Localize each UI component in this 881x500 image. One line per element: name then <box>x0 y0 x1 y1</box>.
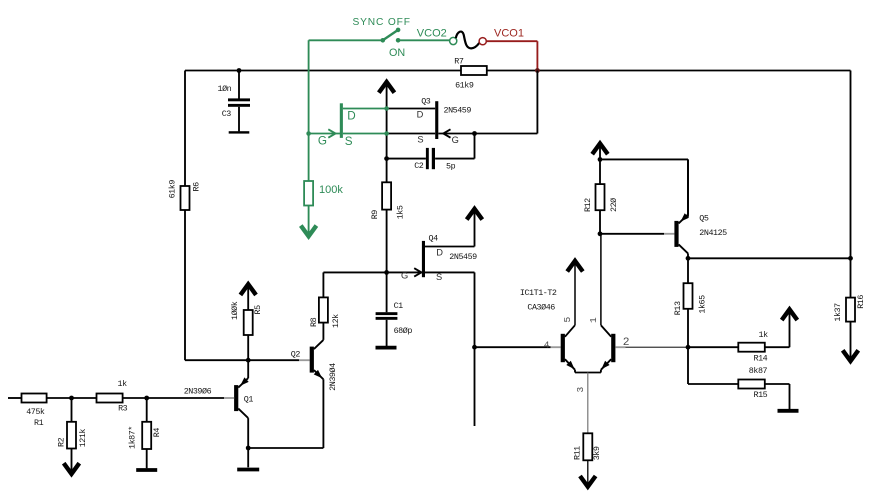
jumper wire <box>456 32 480 49</box>
wire <box>247 335 249 360</box>
svg-text:C1: C1 <box>394 301 404 311</box>
svg-text:VCO1: VCO1 <box>494 28 524 40</box>
wire <box>185 70 461 72</box>
transistor T2 CA3046 <box>601 325 616 372</box>
wire <box>536 71 538 134</box>
capacitor C3 <box>228 98 250 106</box>
junction <box>384 270 389 275</box>
svg-text:S: S <box>417 135 423 145</box>
transistor Q5 2N4125 <box>674 159 689 258</box>
svg-text:2N39Ø6: 2N39Ø6 <box>184 387 212 397</box>
wire <box>184 71 186 187</box>
svg-text:G: G <box>452 135 459 145</box>
wire <box>765 383 790 385</box>
svg-text:R16: R16 <box>856 295 866 309</box>
resistor 100k sync <box>304 134 313 237</box>
wire <box>850 71 852 259</box>
svg-text:5: 5 <box>562 317 573 323</box>
wire <box>398 39 449 41</box>
svg-text:ON: ON <box>389 47 405 59</box>
junction <box>237 68 242 73</box>
transistor Q3 source wire <box>387 133 436 135</box>
resistor R15 <box>738 380 765 389</box>
supply +V pin5 <box>567 261 583 272</box>
junction <box>598 231 603 236</box>
wire <box>387 158 426 160</box>
node C3 terminal bar <box>229 131 250 133</box>
svg-text:R1: R1 <box>34 418 44 428</box>
wire <box>184 210 186 360</box>
junction <box>848 256 853 261</box>
svg-text:121k: 121k <box>78 429 88 448</box>
ground <box>376 346 397 350</box>
svg-text:D: D <box>347 110 355 123</box>
wire <box>600 233 664 235</box>
wire <box>238 71 240 99</box>
svg-text:2N39Ø4: 2N39Ø4 <box>328 363 338 391</box>
transistor Q4 drain wire <box>425 246 475 248</box>
resistor R4 <box>142 398 151 468</box>
resistor R8 <box>319 297 328 322</box>
wire <box>687 347 689 384</box>
transistor Q4 gate arrow <box>414 268 421 276</box>
switch S1 blade <box>383 30 398 40</box>
ground R4 <box>136 468 157 472</box>
wire <box>475 346 551 348</box>
pin stub Q1 base <box>224 397 234 399</box>
svg-text:22Ø: 22Ø <box>609 198 619 212</box>
svg-text:1k5: 1k5 <box>396 205 406 219</box>
junction <box>306 131 311 136</box>
wire <box>475 133 538 135</box>
wire <box>8 397 22 399</box>
svg-text:1k87*: 1k87* <box>127 426 137 449</box>
svg-text:475k: 475k <box>26 407 45 417</box>
resistor R7 <box>461 66 487 75</box>
junction <box>384 156 389 161</box>
transistor Q1 2N3906 <box>234 360 249 448</box>
wire <box>850 322 852 361</box>
wire <box>789 384 791 409</box>
wire <box>687 159 689 216</box>
svg-text:Q1: Q1 <box>244 395 254 405</box>
wire <box>688 257 851 259</box>
supply -V R2 <box>64 463 80 474</box>
svg-text:VCO2: VCO2 <box>417 28 447 40</box>
resistor R12 <box>596 184 605 210</box>
supply -V R16 <box>843 350 859 361</box>
svg-text:5p: 5p <box>446 162 456 172</box>
resistor R9 <box>382 182 391 209</box>
svg-text:G: G <box>401 271 408 281</box>
resistor R16 <box>846 298 855 322</box>
svg-text:61k9: 61k9 <box>168 180 178 199</box>
junction <box>472 345 477 350</box>
svg-text:R12: R12 <box>583 198 593 212</box>
svg-text:Q4: Q4 <box>429 234 439 244</box>
svg-text:2N5459: 2N5459 <box>449 252 477 262</box>
junction <box>598 157 603 162</box>
supply +V <box>379 82 395 93</box>
wire <box>474 347 476 426</box>
transistor Q4 source wire <box>425 271 475 273</box>
transistor Q3 drain wire <box>387 108 436 110</box>
supply -V green <box>301 226 317 237</box>
svg-text:R5: R5 <box>253 305 263 315</box>
resistor R3 <box>97 394 123 403</box>
resistor R2 <box>67 398 76 474</box>
wire <box>574 262 576 325</box>
supply +V R14 <box>782 309 798 320</box>
svg-text:Q5: Q5 <box>699 214 709 224</box>
svg-text:68Øp: 68Øp <box>394 326 413 336</box>
ground <box>237 468 259 472</box>
wire <box>600 234 602 325</box>
ground R15 <box>778 409 799 413</box>
resistor R11 <box>583 433 592 486</box>
resistor R5 <box>244 310 253 335</box>
wire <box>248 447 323 449</box>
svg-text:Q2: Q2 <box>291 349 301 359</box>
svg-text:R4: R4 <box>152 428 162 438</box>
wire <box>308 40 310 133</box>
wire <box>687 309 689 347</box>
transistor Q3 gate arrow <box>443 129 450 137</box>
transistor JFET sync source wire <box>343 133 387 135</box>
switch S1 contacts <box>381 28 401 43</box>
wire <box>386 210 388 313</box>
transistor JFET sync channel bar <box>340 103 343 138</box>
transistor Q4 gate wire <box>387 271 422 273</box>
supply +V R12 <box>592 144 608 155</box>
supply +V Q4 <box>467 209 483 220</box>
wire <box>600 158 688 160</box>
pin stub Q2 base <box>299 359 310 361</box>
junction <box>246 358 251 363</box>
svg-text:IC1T1-T2: IC1T1-T2 <box>520 288 557 298</box>
wire <box>587 373 589 434</box>
svg-text:61k9: 61k9 <box>455 81 474 91</box>
transistor Q2 2N3904 <box>310 323 324 448</box>
wire <box>474 209 476 246</box>
svg-text:1k65: 1k65 <box>698 295 708 314</box>
junction <box>535 68 540 73</box>
junction <box>246 446 251 451</box>
svg-text:CA3Ø46: CA3Ø46 <box>527 302 555 312</box>
transistor Q3 gate wire <box>438 133 474 135</box>
svg-text:3k9: 3k9 <box>592 446 602 460</box>
transistor Q3 channel bar <box>435 101 438 139</box>
svg-text:2: 2 <box>623 337 629 349</box>
svg-text:S: S <box>436 272 442 282</box>
capacitor C2 <box>426 148 435 169</box>
svg-text:C3: C3 <box>222 109 232 119</box>
svg-text:R8: R8 <box>309 317 319 327</box>
wire <box>435 158 474 160</box>
svg-text:2N4125: 2N4125 <box>699 228 727 238</box>
wire <box>536 41 538 70</box>
svg-text:R3: R3 <box>118 404 128 414</box>
wire <box>575 372 601 374</box>
wire <box>247 448 249 467</box>
wire <box>474 272 476 347</box>
junction <box>144 396 149 401</box>
resistor R13 <box>684 283 693 309</box>
svg-text:R2: R2 <box>57 437 67 447</box>
svg-text:R11: R11 <box>573 446 583 460</box>
transistor T1 CA3046 <box>561 325 575 372</box>
svg-text:100k: 100k <box>319 184 343 196</box>
svg-text:1: 1 <box>588 317 599 323</box>
svg-text:R7: R7 <box>454 56 464 66</box>
svg-text:12k: 12k <box>331 314 341 328</box>
transistor JFET sync gate arrow <box>328 129 335 137</box>
wire <box>688 383 738 385</box>
wire <box>850 258 852 297</box>
svg-text:R6: R6 <box>191 182 201 192</box>
wire <box>386 83 388 183</box>
resistor R14 <box>738 343 765 352</box>
svg-text:C2: C2 <box>414 161 424 171</box>
svg-text:4: 4 <box>544 339 550 350</box>
junction <box>472 131 477 136</box>
svg-text:R15: R15 <box>754 390 768 400</box>
wire <box>185 359 299 361</box>
wire <box>688 346 738 348</box>
wire <box>626 346 689 348</box>
svg-text:G: G <box>318 134 327 147</box>
pin stub T2 base <box>615 346 625 348</box>
wire <box>47 397 97 399</box>
capacitor C1 <box>376 312 398 320</box>
wire <box>486 40 537 42</box>
wire <box>789 310 791 347</box>
junction <box>384 106 389 111</box>
pad VCO1 <box>479 38 486 45</box>
wire <box>123 397 224 399</box>
svg-text:1k: 1k <box>118 379 128 389</box>
wire <box>765 346 790 348</box>
svg-text:D: D <box>417 110 424 120</box>
svg-text:R13: R13 <box>673 301 683 315</box>
transistor JFET sync drain wire <box>343 108 387 110</box>
junction <box>384 131 389 136</box>
supply -V R11 <box>580 476 596 487</box>
junction <box>69 396 74 401</box>
svg-text:1k37: 1k37 <box>833 303 843 322</box>
svg-text:SYNC OFF: SYNC OFF <box>353 17 411 28</box>
transistor Q4 channel bar <box>422 241 425 277</box>
wire <box>599 210 601 234</box>
junction <box>686 256 691 261</box>
svg-text:S: S <box>345 135 353 148</box>
wire <box>687 258 689 283</box>
svg-text:D: D <box>436 247 443 257</box>
pin stub T1 base <box>551 346 561 348</box>
junction <box>686 345 691 350</box>
wire <box>474 134 476 159</box>
svg-text:1k: 1k <box>759 330 769 340</box>
wire <box>599 144 601 184</box>
wire <box>238 107 240 132</box>
wire <box>322 272 324 297</box>
wire <box>487 70 851 72</box>
wire <box>247 285 249 310</box>
resistor R6 <box>181 186 190 210</box>
svg-text:R9: R9 <box>370 210 380 220</box>
transistor JFET sync gate wire <box>309 133 340 135</box>
supply +V R5 <box>240 284 256 295</box>
resistor R1 <box>22 394 47 403</box>
wire <box>386 320 388 346</box>
svg-text:Q3: Q3 <box>421 97 431 107</box>
svg-text:3: 3 <box>575 387 586 393</box>
svg-text:2N5459: 2N5459 <box>444 105 472 115</box>
wire <box>309 39 383 41</box>
wire <box>323 271 386 273</box>
pin stub Q5 base <box>664 233 674 235</box>
svg-text:R14: R14 <box>754 353 768 363</box>
svg-text:8k87: 8k87 <box>749 366 768 376</box>
svg-text:1Øn: 1Øn <box>218 84 232 94</box>
svg-text:1ØØk: 1ØØk <box>230 301 240 320</box>
pad VCO2 <box>450 37 457 44</box>
